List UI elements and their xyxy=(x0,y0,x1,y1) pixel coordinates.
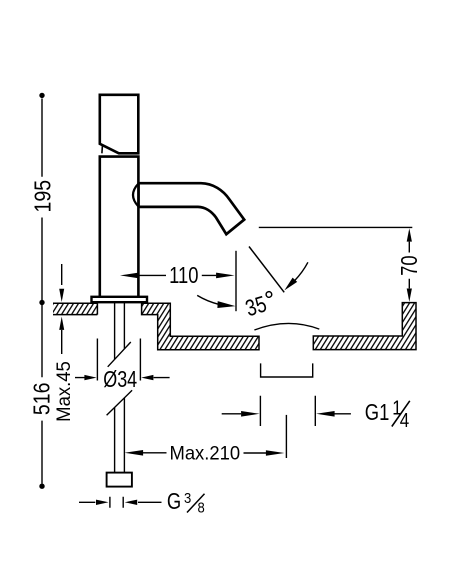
svg-text:Max.210: Max.210 xyxy=(169,442,240,463)
svg-text:Max.45: Max.45 xyxy=(54,361,76,422)
svg-text:70: 70 xyxy=(397,255,422,275)
svg-text:G: G xyxy=(167,489,181,514)
svg-text:195: 195 xyxy=(30,180,56,213)
svg-text:516: 516 xyxy=(29,382,55,415)
svg-text:G1: G1 xyxy=(365,400,390,425)
svg-text:3: 3 xyxy=(184,490,192,506)
svg-text:8: 8 xyxy=(198,500,206,516)
svg-text:110: 110 xyxy=(169,263,198,288)
svg-text:Ø34: Ø34 xyxy=(103,367,137,393)
